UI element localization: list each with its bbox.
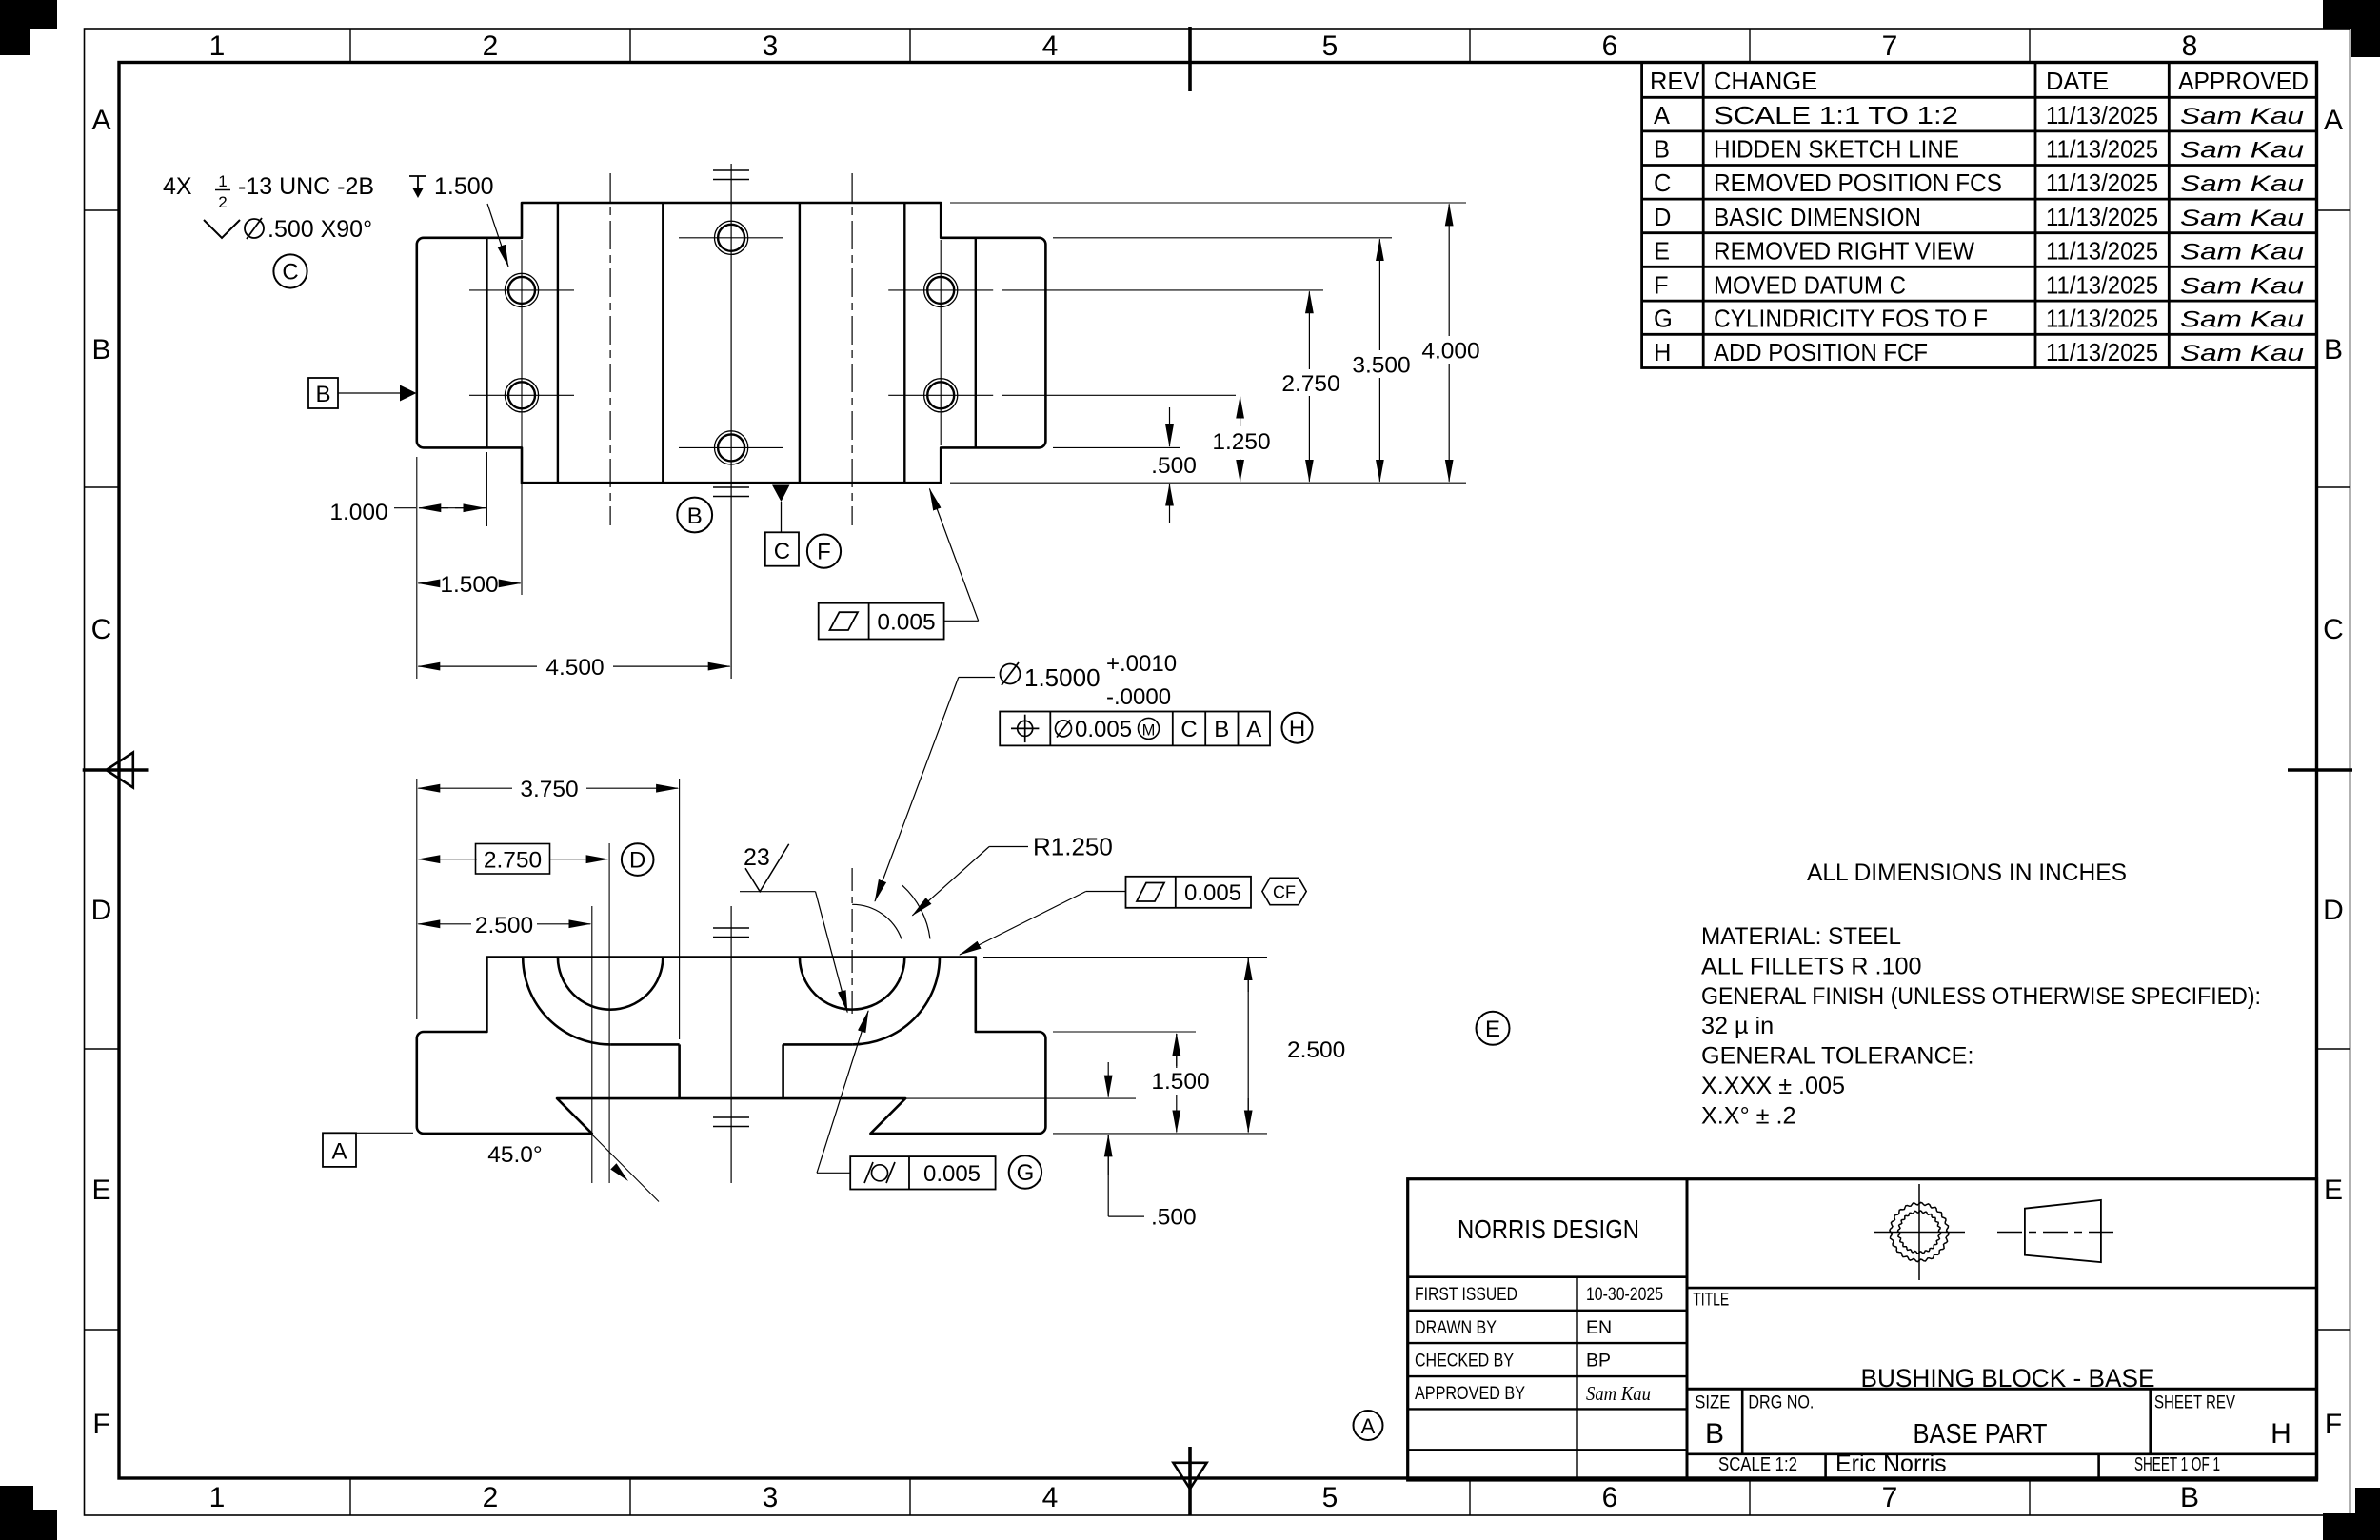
svg-text:C: C [1180, 717, 1197, 742]
svg-text:2.500: 2.500 [1287, 1037, 1345, 1063]
svg-text:HIDDEN SKETCH LINE: HIDDEN SKETCH LINE [1714, 137, 1959, 164]
ext line dovetail corner [591, 906, 593, 1183]
centering mark left [83, 753, 149, 788]
thread note leader [487, 204, 508, 267]
svg-text:C: C [282, 260, 298, 286]
svg-text:11/13/2025: 11/13/2025 [2046, 239, 2158, 266]
datum A [323, 1133, 413, 1167]
svg-text:A: A [91, 105, 110, 136]
svg-text:H: H [1654, 340, 1671, 366]
left boss arc R1.25 [523, 958, 610, 1045]
svg-text:B: B [1654, 137, 1670, 164]
tapped hole lower-right [888, 379, 993, 412]
balloon E [1477, 1012, 1510, 1045]
svg-text:11/13/2025: 11/13/2025 [2046, 103, 2158, 129]
svg-text:D: D [91, 895, 112, 926]
svg-text:B: B [687, 503, 703, 529]
zone labels bottom [209, 1482, 2199, 1513]
centerline ticks above [713, 928, 749, 938]
flatness FCF (top view) [819, 603, 944, 640]
svg-text:E: E [1485, 1017, 1500, 1042]
svg-text:0.005: 0.005 [923, 1161, 981, 1187]
svg-text:Sam Kau: Sam Kau [2180, 206, 2304, 231]
svg-text:+.0010: +.0010 [1106, 651, 1177, 677]
svg-text:B: B [1214, 717, 1229, 742]
front view part outline [417, 958, 1046, 1134]
title block left column labels [1415, 1284, 1525, 1404]
svg-text:Sam Kau: Sam Kau [2180, 240, 2304, 266]
svg-text:2.750: 2.750 [1281, 371, 1339, 397]
svg-text:-.0000: -.0000 [1106, 684, 1171, 710]
left boss ledge [610, 1043, 680, 1046]
revision table signatures [2180, 104, 2304, 366]
svg-text:.500: .500 [1151, 1205, 1197, 1231]
balloon F [807, 535, 841, 568]
dimension .500 (right) [1108, 1062, 1196, 1231]
svg-text:E: E [1654, 239, 1670, 266]
boss extension arc large [902, 885, 930, 938]
svg-text:APPROVED: APPROVED [2178, 69, 2309, 95]
dimension 3.750 [418, 777, 678, 802]
diameter callout 1.5000 [1001, 651, 1178, 710]
svg-text:4: 4 [1042, 30, 1059, 62]
CF flag [1262, 878, 1306, 904]
front view vertical centerline [730, 906, 732, 1183]
svg-text:G: G [1017, 1160, 1035, 1186]
svg-text:23: 23 [744, 844, 770, 871]
svg-text:SHEET 1 OF 1: SHEET 1 OF 1 [2134, 1454, 2220, 1475]
tapped hole lower-left [469, 379, 574, 412]
svg-text:2.750: 2.750 [484, 848, 542, 874]
svg-text:1.500: 1.500 [1151, 1069, 1209, 1095]
svg-text:CF: CF [1273, 883, 1296, 902]
centerline end ticks top [713, 170, 749, 180]
top view step edge left [486, 238, 487, 448]
svg-text:A: A [1361, 1414, 1376, 1438]
svg-text:7: 7 [1882, 1482, 1898, 1513]
svg-text:EN: EN [1586, 1317, 1612, 1338]
svg-text:SIZE: SIZE [1695, 1393, 1730, 1413]
svg-text:4.000: 4.000 [1421, 339, 1479, 365]
bottom ext line right [1053, 1133, 1267, 1135]
revision table rows [1654, 103, 2158, 366]
svg-text:APPROVED BY: APPROVED BY [1415, 1383, 1525, 1404]
dimension 4.000 [1421, 204, 1479, 481]
ext line bore center / 2.750 basic [608, 843, 610, 1183]
dimension 1.250 [1212, 397, 1270, 482]
svg-text:A: A [2324, 105, 2343, 136]
ext line flange left [416, 457, 418, 679]
depth symbol [409, 176, 426, 191]
svg-text:BUSHING BLOCK - BASE: BUSHING BLOCK - BASE [1861, 1364, 2155, 1392]
top view main vertical centerline [730, 164, 732, 679]
part icon side view [1997, 1200, 2119, 1262]
corner trim mark bottom-right [2323, 1488, 2380, 1540]
bore extension arc small [852, 904, 902, 938]
part icon circular view [1874, 1184, 1965, 1280]
svg-text:R1.250: R1.250 [1033, 833, 1113, 861]
svg-text:Sam Kau: Sam Kau [2180, 273, 2304, 299]
zone dividers top band [350, 29, 2030, 63]
svg-text:TITLE: TITLE [1693, 1291, 1729, 1311]
tapped hole top-center [679, 221, 783, 254]
parallelism leader [960, 892, 1126, 956]
svg-text:REMOVED RIGHT VIEW: REMOVED RIGHT VIEW [1714, 239, 1974, 266]
svg-text:11/13/2025: 11/13/2025 [2046, 170, 2158, 197]
svg-text:CHECKED BY: CHECKED BY [1415, 1351, 1514, 1372]
svg-text:1: 1 [209, 1482, 226, 1513]
svg-text:X.XXX ± .005: X.XXX ± .005 [1701, 1073, 1845, 1099]
revision table header [1650, 69, 2309, 95]
dimension .500 (top view) [1151, 407, 1197, 523]
countersink note [204, 216, 372, 243]
svg-text:1.250: 1.250 [1212, 429, 1270, 455]
svg-text:5: 5 [1322, 30, 1339, 62]
balloon B [677, 498, 712, 533]
right boss ledge [783, 1043, 853, 1046]
svg-text:DRG NO.: DRG NO. [1748, 1393, 1814, 1413]
svg-text:3: 3 [763, 1482, 779, 1513]
shoulder ext line right [1053, 1031, 1196, 1033]
top ext line right [983, 957, 1267, 958]
zone labels top [209, 30, 2198, 62]
svg-text:MATERIAL: STEEL: MATERIAL: STEEL [1701, 923, 1901, 950]
right boss step edge [782, 1044, 784, 1098]
corner trim mark bottom-left [0, 1486, 57, 1540]
right boss arc R1.25 [852, 958, 940, 1045]
centerline end ticks bottom [713, 487, 749, 497]
thread note 4X 1/2-13 UNC [163, 173, 494, 200]
svg-text:1.000: 1.000 [329, 500, 387, 525]
svg-text:4.500: 4.500 [545, 655, 604, 681]
tapped hole bottom-center [679, 431, 783, 464]
balloon D [622, 843, 654, 876]
bore centerline left (dash-dot) [609, 173, 611, 525]
svg-text:NORRIS DESIGN: NORRIS DESIGN [1458, 1214, 1639, 1244]
svg-text:8: 8 [2182, 30, 2198, 62]
svg-text:2: 2 [218, 193, 227, 211]
svg-text:A: A [331, 1139, 347, 1165]
cylindricity FCF [850, 1156, 995, 1189]
svg-text:6: 6 [1602, 1482, 1618, 1513]
revision table grid [1642, 63, 2317, 368]
svg-text:H: H [1289, 716, 1305, 741]
svg-text:E: E [91, 1175, 110, 1206]
datum B [308, 378, 417, 408]
svg-text:11/13/2025: 11/13/2025 [2046, 340, 2158, 366]
svg-text:REMOVED POSITION FCS: REMOVED POSITION FCS [1714, 170, 2002, 197]
svg-text:C: C [91, 614, 112, 645]
svg-text:4X: 4X [163, 173, 192, 200]
balloon C [273, 254, 307, 287]
svg-text:0.005: 0.005 [1184, 880, 1241, 906]
left boss step edge [678, 1044, 681, 1098]
svg-text:B: B [1705, 1418, 1724, 1450]
right bore semicircle [800, 958, 904, 1010]
svg-text:C: C [1654, 170, 1671, 197]
left holes centerline [521, 240, 523, 595]
svg-text:ALL FILLETS R .100: ALL FILLETS R .100 [1701, 953, 1921, 979]
svg-text:BASE PART: BASE PART [1914, 1419, 2048, 1450]
left bore semicircle [558, 958, 663, 1010]
balloon A (near title block) [1354, 1411, 1383, 1440]
svg-text:F: F [817, 540, 831, 565]
svg-text:6: 6 [1602, 30, 1618, 62]
zone labels left [91, 105, 112, 1440]
svg-text:3.750: 3.750 [520, 777, 578, 802]
svg-text:2: 2 [483, 30, 499, 62]
diameter leader [875, 678, 995, 902]
svg-text:G: G [1654, 306, 1673, 333]
dimension 2.750 (top view) [1281, 291, 1339, 482]
fraction 1/2 [215, 172, 230, 211]
tapped hole upper-left [469, 273, 574, 306]
basic dimension 2.750 [418, 844, 607, 875]
svg-text:10-30-2025: 10-30-2025 [1586, 1284, 1663, 1305]
svg-text:SCALE 1:2: SCALE 1:2 [1718, 1454, 1797, 1475]
svg-text:BASIC DIMENSION: BASIC DIMENSION [1714, 205, 1921, 231]
dimension 1.500 (right) [1151, 1034, 1209, 1132]
dimension 2.500 (right) [1248, 958, 1345, 1132]
svg-text:B: B [91, 334, 110, 365]
svg-text:MOVED DATUM C: MOVED DATUM C [1714, 272, 1906, 299]
dimension 1.500 [418, 572, 520, 598]
svg-text:B: B [2324, 334, 2343, 365]
svg-text:Sam Kau: Sam Kau [2180, 171, 2304, 197]
svg-text:.500 X90°: .500 X90° [268, 216, 372, 243]
svg-text:E: E [2324, 1175, 2343, 1206]
svg-text:A: A [1654, 103, 1670, 129]
svg-text:11/13/2025: 11/13/2025 [2046, 272, 2158, 299]
svg-text:2: 2 [483, 1482, 499, 1513]
svg-text:Eric Norris: Eric Norris [1835, 1451, 1947, 1477]
radius callout R1.250 [912, 833, 1112, 916]
corner trim mark top-left [0, 0, 57, 55]
tapped hole upper-right [888, 273, 993, 306]
balloon G [1009, 1155, 1041, 1188]
svg-text:-13 UNC -2B: -13 UNC -2B [238, 173, 374, 200]
svg-text:1.500: 1.500 [434, 173, 494, 200]
cylindricity leader [817, 1011, 868, 1173]
ext line boss step 3.750 [679, 779, 681, 1039]
dimension 4.500 [418, 655, 729, 681]
svg-text:FIRST ISSUED: FIRST ISSUED [1415, 1284, 1517, 1305]
right holes centerline [940, 240, 942, 445]
centerline ticks below [713, 1117, 749, 1127]
svg-text:X.X° ± .2: X.X° ± .2 [1701, 1102, 1796, 1129]
corner trim mark top-right [2323, 0, 2380, 57]
balloon H [1282, 713, 1313, 743]
svg-text:5: 5 [1322, 1482, 1339, 1513]
svg-text:DRAWN BY: DRAWN BY [1415, 1317, 1497, 1338]
svg-text:CYLINDRICITY FOS TO F: CYLINDRICITY FOS TO F [1714, 306, 1988, 333]
svg-text:Sam Kau: Sam Kau [2180, 307, 2304, 333]
svg-text:1.5000: 1.5000 [1024, 663, 1101, 692]
right side extension lines [950, 203, 1466, 483]
svg-text:1: 1 [209, 30, 226, 62]
dimension 1.000 [329, 500, 486, 525]
zone dividers left band [85, 210, 120, 1330]
svg-text:32 µ in: 32 µ in [1701, 1013, 1774, 1039]
svg-text:F: F [92, 1409, 109, 1440]
svg-text:3.500: 3.500 [1352, 353, 1410, 379]
centering mark right [2288, 768, 2352, 772]
svg-text:F: F [2325, 1409, 2342, 1440]
surface finish 23 [740, 844, 847, 1013]
flatness FCF leader [929, 489, 978, 622]
ext line step left [486, 452, 487, 526]
dimension 3.500 [1352, 239, 1410, 482]
ext line left face [416, 779, 418, 1019]
relief ext line [905, 1097, 1136, 1099]
svg-text:REV: REV [1650, 69, 1699, 95]
svg-text:F: F [1654, 272, 1669, 299]
svg-text:SCALE 1:1 TO 1:2: SCALE 1:1 TO 1:2 [1714, 103, 1958, 129]
svg-text:CHANGE: CHANGE [1714, 69, 1817, 95]
svg-text:0.005: 0.005 [877, 610, 935, 636]
svg-text:B: B [315, 382, 330, 407]
position FCF [1000, 712, 1270, 746]
centering mark top [1188, 27, 1192, 91]
svg-text:H: H [2271, 1418, 2291, 1450]
svg-text:DATE: DATE [2046, 69, 2109, 95]
svg-text:A: A [1246, 717, 1261, 742]
svg-text:B: B [2180, 1482, 2199, 1513]
svg-text:Sam Kau: Sam Kau [2180, 104, 2304, 129]
zone dividers bottom band [350, 1478, 2030, 1515]
svg-text:D: D [629, 848, 645, 874]
centering mark bottom [1173, 1447, 1206, 1515]
svg-text:0.005: 0.005 [1075, 717, 1132, 742]
title block grid [1408, 1179, 2317, 1480]
svg-text:4: 4 [1042, 1482, 1059, 1513]
svg-text:D: D [1654, 205, 1671, 231]
svg-text:3: 3 [763, 30, 779, 62]
svg-text:11/13/2025: 11/13/2025 [2046, 306, 2158, 333]
datum C flag [765, 485, 799, 566]
zone labels right [2323, 105, 2344, 1440]
title block left column values [1586, 1284, 1663, 1372]
svg-text:ADD POSITION FCF: ADD POSITION FCF [1714, 340, 1928, 366]
top view part outline [417, 203, 1046, 483]
bore centerline right (dash-dot) [851, 173, 853, 525]
general notes [1701, 859, 2261, 1129]
svg-text:1: 1 [218, 172, 227, 190]
zone dividers right band [2317, 210, 2350, 1330]
svg-text:45.0°: 45.0° [487, 1142, 542, 1168]
svg-text:M: M [1142, 722, 1156, 740]
parallelism FCF with CF [1126, 877, 1252, 908]
svg-text:1.500: 1.500 [440, 572, 498, 598]
svg-text:11/13/2025: 11/13/2025 [2046, 137, 2158, 164]
top view step edge right [975, 238, 977, 448]
svg-text:BP: BP [1586, 1351, 1611, 1372]
svg-text:11/13/2025: 11/13/2025 [2046, 205, 2158, 231]
svg-text:C: C [2323, 614, 2344, 645]
svg-text:D: D [2323, 895, 2344, 926]
dimension 2.500 (left) [418, 913, 590, 938]
svg-text:C: C [774, 539, 790, 564]
svg-text:ALL DIMENSIONS IN INCHES: ALL DIMENSIONS IN INCHES [1807, 859, 2127, 886]
svg-text:GENERAL TOLERANCE:: GENERAL TOLERANCE: [1701, 1043, 1973, 1070]
top view bore groove edges [558, 203, 904, 483]
right bore centerline [851, 868, 853, 1014]
angle 45.0 [487, 1142, 628, 1181]
svg-text:.500: .500 [1151, 453, 1197, 479]
svg-text:Sam Kau: Sam Kau [1586, 1382, 1651, 1405]
svg-text:Sam Kau: Sam Kau [2180, 341, 2304, 366]
chamfer extension line [592, 1135, 659, 1202]
svg-text:7: 7 [1882, 30, 1898, 62]
svg-text:SHEET REV: SHEET REV [2154, 1393, 2235, 1413]
svg-text:Sam Kau: Sam Kau [2180, 138, 2304, 164]
svg-text:2.500: 2.500 [475, 913, 533, 938]
svg-text:GENERAL FINISH (UNLESS OTHERWI: GENERAL FINISH (UNLESS OTHERWISE SPECIFI… [1701, 983, 2261, 1010]
